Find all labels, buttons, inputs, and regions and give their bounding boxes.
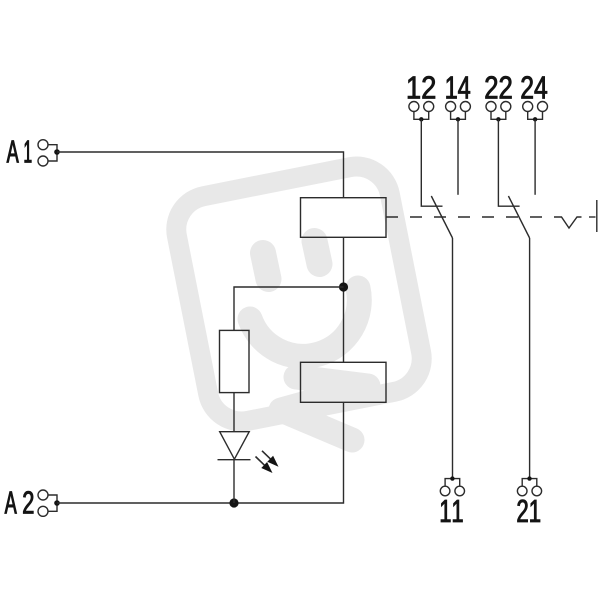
terminal A1 bbox=[38, 140, 60, 166]
wire A2 bottom rail bbox=[57, 402, 344, 503]
terminal 21 bbox=[517, 476, 541, 495]
contact set 2: moving blade bbox=[508, 196, 529, 238]
wire coil to coil2 bbox=[343, 237, 345, 362]
terminal 22 bbox=[486, 102, 511, 122]
contact set 2: wire 22 NC bbox=[498, 119, 519, 206]
linkage chevron bbox=[554, 217, 582, 228]
label A1 bbox=[7, 141, 19, 163]
watermark pin right bbox=[315, 241, 320, 264]
mechanical linkage dashed line bbox=[386, 216, 554, 218]
LED D1 triangle bbox=[220, 432, 250, 460]
contact set 1: wire 14 NO bbox=[457, 119, 459, 195]
label 24 bbox=[522, 76, 548, 98]
watermark rounded square bbox=[170, 161, 427, 428]
wire resistor to LED bbox=[233, 393, 235, 432]
terminal 14 bbox=[446, 102, 471, 122]
coil K1 (top rectangle) bbox=[301, 198, 387, 238]
label 12 bbox=[408, 76, 435, 98]
coil element 2 (bottom rectangle) bbox=[301, 362, 387, 402]
wire branch to resistor bbox=[234, 287, 344, 330]
contact set 1: wire 12 NC bbox=[421, 119, 442, 206]
wire LED to bottom rail bbox=[233, 460, 235, 503]
label 11 bbox=[441, 500, 463, 522]
watermark logo bbox=[170, 161, 427, 440]
terminal 24 bbox=[523, 102, 548, 122]
wire blade to terminal 21 bbox=[529, 238, 531, 479]
linkage end dash bbox=[589, 216, 596, 218]
label 21 bbox=[517, 500, 540, 522]
label 14 bbox=[446, 77, 469, 99]
LED light arrow 1 bbox=[262, 451, 279, 467]
terminal A2 bbox=[38, 490, 60, 516]
label 22 bbox=[486, 76, 512, 98]
watermark cable zigzag bbox=[281, 377, 368, 440]
resistor R1 bbox=[220, 330, 250, 392]
contact set 2: wire 24 NO bbox=[534, 119, 536, 195]
wire blade to terminal 11 bbox=[452, 238, 454, 479]
label A2 bbox=[5, 492, 17, 514]
node bottom junction bbox=[229, 498, 238, 507]
terminal 11 bbox=[440, 476, 464, 495]
terminal 12 bbox=[409, 102, 434, 122]
wire A1 to coil bbox=[57, 152, 344, 198]
LED D1 cathode bar bbox=[218, 459, 251, 461]
watermark mouth arc bbox=[250, 288, 359, 356]
watermark pin left bbox=[263, 253, 269, 279]
node mid junction bbox=[339, 282, 348, 291]
LED light arrow 2 bbox=[256, 457, 273, 474]
linkage end bar bbox=[596, 200, 598, 232]
contact set 1: moving blade bbox=[431, 196, 452, 238]
